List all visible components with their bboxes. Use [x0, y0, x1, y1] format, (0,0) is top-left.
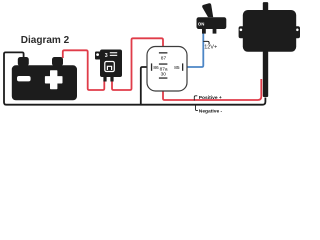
- svg-text:ON: ON: [198, 22, 204, 27]
- svg-text:Negative -: Negative -: [199, 109, 223, 115]
- svg-text:85: 85: [174, 65, 180, 71]
- svg-text:Positive +: Positive +: [199, 95, 222, 101]
- svg-text:3: 3: [105, 53, 108, 59]
- svg-text:87a: 87a: [160, 66, 168, 72]
- svg-text:86: 86: [153, 65, 159, 71]
- svg-text:30: 30: [161, 72, 167, 78]
- svg-text:87: 87: [161, 56, 167, 62]
- svg-text:12V+: 12V+: [204, 45, 217, 51]
- svg-text:Diagram 2: Diagram 2: [21, 35, 70, 46]
